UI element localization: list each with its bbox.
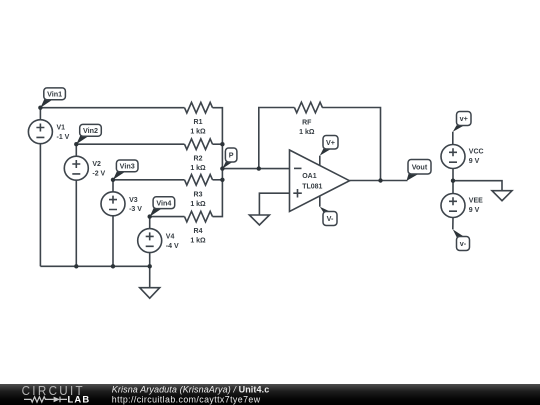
svg-text:V3: V3 — [129, 197, 138, 204]
voltage source V2 — [64, 144, 105, 266]
flag Vin3 — [111, 160, 138, 182]
wire row 2 — [76, 143, 222, 145]
flag Vout — [407, 160, 432, 181]
junction rail V3 — [111, 264, 115, 268]
voltage source V1 — [28, 108, 69, 267]
flag v- — [453, 229, 470, 250]
svg-text:V4: V4 — [166, 234, 175, 241]
svg-text:R2: R2 — [194, 156, 203, 163]
pin V- of OA1 — [320, 196, 337, 225]
junction VCC VEE — [451, 179, 455, 183]
svg-text:1 kΩ: 1 kΩ — [190, 238, 206, 245]
wire node P to op-amp — [222, 168, 289, 170]
svg-text:V1: V1 — [57, 125, 66, 132]
svg-text:V2: V2 — [92, 161, 101, 168]
svg-text:V-: V- — [327, 214, 334, 223]
pin V+ of OA1 — [320, 136, 338, 166]
wire row 4 — [150, 216, 185, 218]
ground bottom — [140, 266, 160, 298]
svg-text:OA1: OA1 — [302, 173, 317, 180]
wire VEE to v- — [452, 218, 454, 230]
wire v+ to VCC — [452, 132, 454, 145]
logo CIRCUIT — [22, 384, 85, 398]
flag node P — [222, 148, 237, 169]
voltage source V3 — [101, 180, 142, 266]
flag Vin4 — [148, 197, 175, 219]
resistor R2 — [185, 139, 213, 172]
svg-text:Krisna Aryaduta (KrisnaArya) /: Krisna Aryaduta (KrisnaArya) / Unit4.c — [112, 385, 270, 395]
svg-text:-3 V: -3 V — [129, 206, 142, 213]
footer credit line — [112, 385, 270, 395]
svg-text:V+: V+ — [326, 138, 335, 147]
svg-text:Vout: Vout — [412, 163, 428, 172]
wire noninverting input to ground — [259, 193, 289, 215]
voltage source VCC — [441, 145, 484, 169]
svg-text:http://circuitlab.com/cayttx7t: http://circuitlab.com/cayttx7tye7ew — [112, 395, 261, 405]
resistor RF — [294, 102, 322, 136]
flag Vin2 — [74, 124, 101, 146]
resistor R1 — [185, 102, 213, 135]
flag v+ — [453, 112, 471, 132]
wire feedback loop — [259, 108, 295, 169]
svg-text:R4: R4 — [194, 228, 203, 235]
wire bottom rail — [40, 265, 149, 267]
ground op-amp — [249, 215, 269, 225]
junction bus R2 — [220, 142, 224, 146]
wire junction to right ground — [453, 181, 502, 191]
svg-text:v-: v- — [460, 239, 467, 248]
svg-text:VCC: VCC — [469, 149, 484, 156]
wire bus right of resistors — [213, 108, 223, 217]
junction bus R3 — [220, 178, 224, 182]
svg-text:VEE: VEE — [469, 198, 483, 205]
ground right — [492, 191, 512, 201]
svg-text:1 kΩ: 1 kΩ — [190, 129, 206, 136]
flag Vin1 — [38, 88, 65, 110]
wire output — [350, 180, 408, 182]
svg-text:-4 V: -4 V — [166, 243, 179, 250]
wire feedback right — [322, 108, 380, 181]
svg-text:-1 V: -1 V — [57, 134, 70, 141]
svg-text:Vin2: Vin2 — [83, 126, 98, 135]
svg-text:RF: RF — [302, 120, 312, 127]
node P junction — [220, 166, 224, 170]
junction rail V2 — [74, 264, 78, 268]
wire top rail Vin1 to R1 — [40, 107, 184, 109]
svg-text:v+: v+ — [460, 114, 468, 123]
resistor R4 — [185, 211, 213, 244]
junction feedback tap — [257, 166, 261, 170]
svg-text:Vin3: Vin3 — [120, 162, 135, 171]
svg-text:9 V: 9 V — [469, 207, 480, 214]
op-amp OA1 — [290, 150, 350, 212]
svg-text:1 kΩ: 1 kΩ — [190, 165, 206, 172]
svg-text:TL081: TL081 — [302, 183, 322, 190]
junction output RF — [378, 178, 382, 182]
resistor R3 — [185, 175, 213, 208]
svg-text:Vin4: Vin4 — [156, 198, 171, 207]
svg-text:Vin1: Vin1 — [47, 90, 62, 99]
svg-text:P: P — [229, 151, 234, 160]
logo LAB — [68, 394, 91, 405]
svg-text:R3: R3 — [194, 191, 203, 198]
voltage source VEE — [441, 194, 483, 218]
svg-text:LAB: LAB — [68, 394, 91, 405]
svg-text:-2 V: -2 V — [92, 171, 105, 178]
logo resistor-diode glyph — [24, 397, 67, 403]
svg-text:1 kΩ: 1 kΩ — [299, 129, 315, 136]
footer bar — [0, 384, 540, 405]
svg-text:R1: R1 — [194, 119, 203, 126]
svg-text:9 V: 9 V — [469, 158, 480, 165]
svg-text:1 kΩ: 1 kΩ — [190, 201, 206, 208]
voltage source V4 — [138, 217, 179, 267]
wire row 3 — [113, 179, 222, 181]
junction rail V4 — [148, 264, 152, 268]
wire VCC to VEE — [452, 169, 454, 194]
footer url line — [112, 395, 261, 405]
